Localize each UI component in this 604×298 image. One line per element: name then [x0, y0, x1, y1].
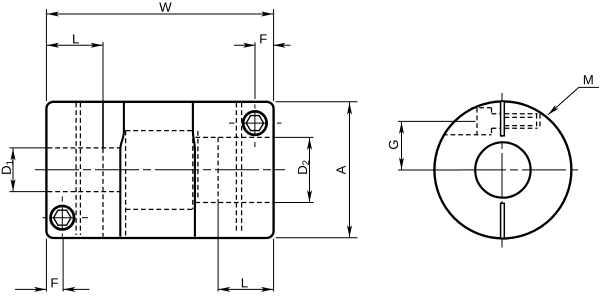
node slit top: clamp slit (end view, above screw)	[501, 101, 505, 136]
screw M2: clamp screw head, bottom left	[51, 206, 75, 230]
wire: right hub slit hidden line 1	[235, 103, 237, 234]
wire: right hub slit hidden line 2	[241, 103, 243, 234]
dimension W	[47, 13, 273, 15]
wire: bore D2 hidden top	[195, 136, 272, 138]
dimension A extension lines	[276, 101, 358, 103]
wire: spider right visible edge	[193, 102, 195, 237]
dimension G	[401, 122, 403, 170]
dimension L (bottom) extension lines	[273, 239, 275, 292]
wire: bore D1 hidden bottom	[48, 191, 121, 193]
dimension F (bottom) extension lines	[45, 239, 47, 292]
wire: bore D2 hidden bottom	[195, 202, 272, 204]
wire: screw clearance hole hidden lines	[492, 113, 501, 115]
dimension D1 extension lines	[10, 147, 47, 149]
node spider: hidden center boss rectangle	[126, 130, 193, 132]
node body: coupling body outline (front view)	[46, 102, 273, 238]
wire: left hub face hidden edge	[102, 148, 104, 236]
screw M1: clamp screw head, top right	[243, 111, 267, 135]
dimension D1	[12, 148, 14, 191]
dimension D2	[309, 138, 311, 202]
dimension L (top)	[102, 42, 104, 102]
wire: spider left visible edge	[120, 102, 124, 237]
wire: coupling axis centerline (front view)	[35, 169, 285, 171]
dimension F (bottom)	[15, 288, 46, 290]
node hub: outer circle (end view)	[434, 101, 571, 238]
node counterbore: hidden screw head pocket (end view)	[476, 108, 478, 135]
dimension F (top)	[254, 42, 256, 99]
dimension A	[349, 102, 351, 237]
wire: end view horizontal centerline	[462, 169, 582, 171]
dimension D2 extension lines	[275, 136, 314, 138]
dimension L (bottom)	[219, 288, 273, 290]
wire: end view vertical centerline	[501, 93, 503, 248]
wire: bore D1 hidden top	[48, 147, 121, 149]
wire: extension from right hub face through body	[217, 203, 219, 292]
wire: tapped hole minor diameter hidden lines	[505, 116, 534, 118]
node slit bottom: clamp slit (end view, bore to OD)	[501, 203, 505, 238]
wire: left hub slit hidden line 1	[75, 103, 77, 235]
wire: left hub face visible edge	[102, 102, 104, 148]
wire: hidden edge right of spider	[197, 131, 199, 199]
label M leader	[548, 87, 599, 114]
dimension G extension lines	[398, 120, 476, 122]
wire: right hub face hidden edge	[217, 138, 219, 203]
node bore: inner circle (end view)	[475, 142, 530, 197]
dimension W extension lines	[45, 9, 47, 101]
wire: left hub slit hidden line 2	[79, 103, 81, 235]
wire: tapped hole end hidden lines	[536, 114, 538, 129]
